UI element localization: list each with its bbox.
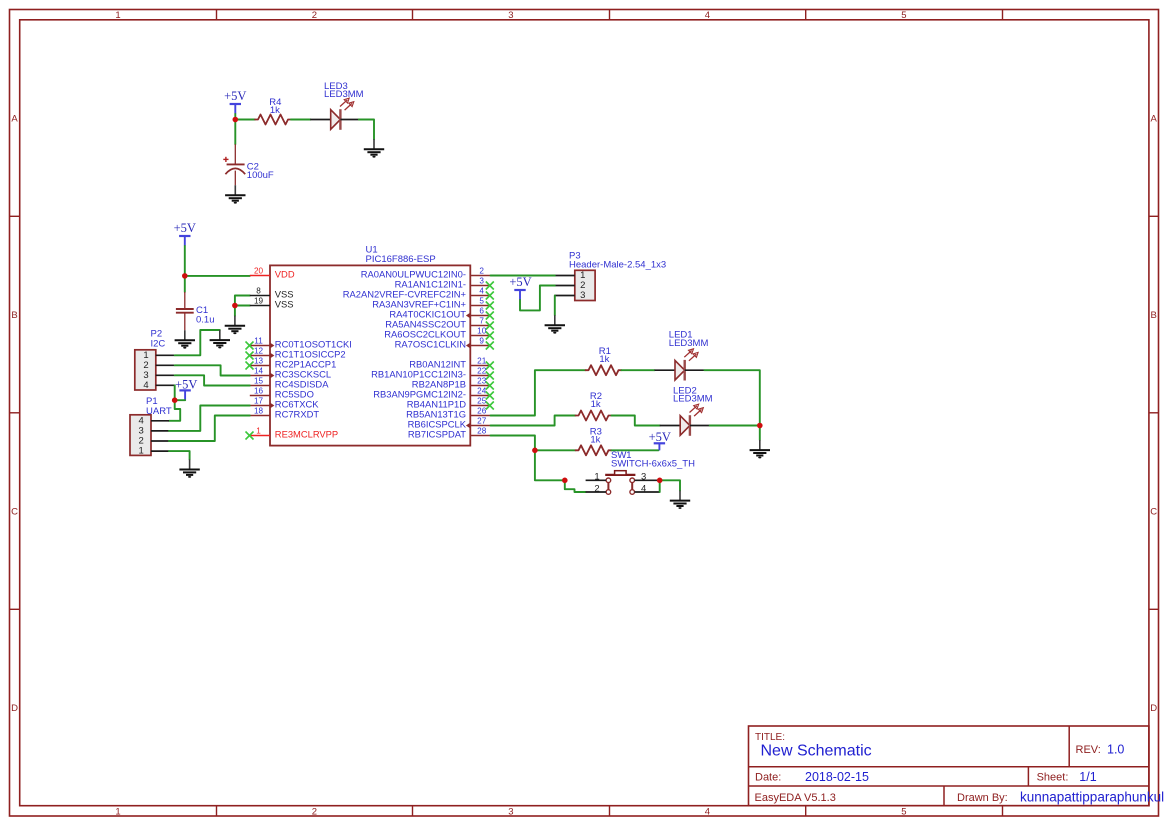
U1 pin 25 RB4AN11P1D: [407, 397, 494, 410]
junction SW1 pins 1-2 node: [562, 478, 568, 484]
ground P1 pin1: [179, 459, 199, 477]
svg-text:9: 9: [479, 337, 484, 346]
svg-text:3: 3: [580, 290, 585, 301]
svg-text:1: 1: [256, 427, 261, 436]
U1 pin 3 RA1AN1C12IN1-: [395, 277, 494, 290]
svg-text:TITLE:: TITLE:: [755, 732, 785, 743]
U1 pin 6 RA4T0CKIC1OUT: [389, 307, 493, 320]
U1 label: [366, 245, 378, 256]
P3 label: [569, 251, 581, 262]
svg-text:RA7OSC1CLKIN: RA7OSC1CLKIN: [395, 339, 466, 350]
svg-text:+5V: +5V: [509, 275, 531, 289]
svg-text:REV:: REV:: [1076, 744, 1101, 756]
LED2 label: [673, 386, 697, 397]
svg-text:4: 4: [641, 483, 646, 494]
svg-text:0.1u: 0.1u: [196, 314, 215, 325]
svg-text:1: 1: [115, 807, 120, 818]
svg-text:C: C: [11, 506, 18, 517]
wire SW1 pin4 up to node: [659, 480, 661, 492]
svg-text:20: 20: [254, 267, 264, 276]
wire node to R3: [535, 449, 576, 451]
U1 pin 7 RA5AN4SSC2OUT: [385, 317, 494, 330]
svg-text:28: 28: [477, 427, 487, 436]
svg-text:D: D: [1150, 703, 1157, 714]
wire cathode rail to ground: [759, 426, 761, 441]
svg-text:4: 4: [705, 10, 710, 21]
P3 value Header-Male-2.54_1x3: [569, 259, 666, 270]
ground LED rail: [750, 440, 770, 458]
P3 pin 3: [555, 290, 586, 301]
ground P2 pin1: [210, 330, 230, 348]
junction VDD node: [182, 273, 188, 279]
svg-text:Date:: Date:: [755, 772, 781, 784]
wire R3 to +5V: [612, 449, 659, 451]
wire P3 pin3 to ground: [554, 296, 556, 316]
wire U1 pin2 RA0 to P3 pin1: [491, 275, 555, 277]
svg-text:2: 2: [312, 807, 317, 818]
LED1 value LED3MM: [669, 338, 709, 349]
svg-text:RB7ICSPDAT: RB7ICSPDAT: [408, 429, 466, 440]
switch SW1 body: [605, 471, 635, 495]
svg-text:New Schematic: New Schematic: [761, 743, 872, 760]
wire U1 pin26 to R1: [491, 370, 586, 415]
svg-text:1k: 1k: [270, 105, 280, 116]
svg-text:25: 25: [477, 397, 487, 406]
junction LED cathode rail: [757, 423, 763, 429]
P2 pin 1: [143, 350, 174, 361]
IC U1 PIC16F886-ESP body: [270, 265, 470, 445]
svg-text:1: 1: [594, 472, 599, 483]
junction P2 pin4 / P1 pin4 +5V node: [172, 397, 178, 403]
svg-text:EasyEDA V5.1.3: EasyEDA V5.1.3: [755, 792, 836, 804]
SW1 pin 3: [635, 472, 660, 483]
svg-text:13: 13: [254, 357, 264, 366]
wire flag to node: [175, 399, 185, 401]
C2 label: [247, 161, 259, 172]
capacitor C2 (polarized): [223, 144, 245, 185]
U1 pin 28 RB7ICSPDAT: [408, 427, 491, 440]
LED2 value LED3MM: [673, 394, 713, 405]
wire P1 pin2 to U1 pin18 RX: [169, 416, 250, 442]
wire +5V flag down to VDD junction: [184, 246, 186, 276]
svg-text:3: 3: [508, 807, 513, 818]
P2 pin 2: [143, 360, 174, 371]
svg-text:1k: 1k: [591, 399, 601, 410]
wire LED2 to cathode rail: [710, 425, 760, 427]
U1 pin 8 VSS: [250, 287, 294, 300]
svg-text:1: 1: [139, 446, 144, 457]
P2 label: [151, 329, 163, 340]
U1 pin 4 RA2AN2VREF-CVREFC2IN+: [343, 287, 494, 300]
ground P3 pin3: [545, 315, 565, 333]
wire node to P1 pin4: [169, 400, 180, 421]
SW1 value SWITCH-6x6x5_TH: [611, 459, 695, 470]
U1 pin 13 RC2P1ACCP1: [246, 357, 337, 370]
svg-text:2: 2: [479, 267, 484, 276]
svg-text:1.0: 1.0: [1107, 743, 1124, 757]
wire P2 pin2 to U1 pin14 SCL: [175, 365, 250, 375]
svg-text:A: A: [1151, 114, 1158, 125]
svg-text:VSS: VSS: [275, 299, 294, 310]
svg-text:RE3MCLRVPP: RE3MCLRVPP: [275, 429, 338, 440]
wire P1 pin3 to U1 pin17 TX: [169, 406, 250, 431]
svg-text:+5V: +5V: [174, 221, 196, 235]
svg-text:+5V: +5V: [649, 430, 671, 444]
U1 pin 27 RB6ICSPCLK: [408, 417, 491, 430]
resistor R1: [586, 365, 622, 375]
net flag +5V (top, above C2): [224, 89, 246, 114]
U1 pin 12 RC1T1OSICCP2: [246, 347, 346, 360]
svg-text:4: 4: [143, 380, 148, 391]
P2 pin 4: [143, 380, 174, 391]
svg-text:1k: 1k: [590, 435, 600, 446]
svg-text:23: 23: [477, 377, 487, 386]
svg-text:19: 19: [254, 297, 264, 306]
wire node down to SW1: [535, 450, 565, 480]
svg-text:11: 11: [254, 337, 263, 346]
svg-text:18: 18: [254, 407, 264, 416]
resistor R2: [576, 411, 612, 421]
C1 value 0.1u: [196, 314, 215, 325]
wire junction to R4: [235, 119, 255, 121]
svg-text:+5V: +5V: [175, 378, 197, 392]
wire U1 pin28 to R3 node: [491, 436, 535, 451]
LED LED2: [660, 404, 710, 436]
svg-text:2018-02-15: 2018-02-15: [805, 770, 869, 784]
svg-text:5: 5: [901, 10, 906, 21]
junction +5V / R4 / C2: [233, 117, 239, 123]
svg-text:1k: 1k: [599, 354, 609, 365]
R2 value 1k: [591, 399, 601, 410]
svg-text:5: 5: [901, 807, 906, 818]
U1 pin 16 RC5SDO: [250, 387, 314, 400]
wire P2 pin3 to U1 pin15 SDA: [175, 375, 250, 385]
capacitor C1: [176, 292, 194, 330]
wire VDD junction down to C1: [184, 276, 186, 292]
U1 pin 9 RA7OSC1CLKIN: [395, 337, 494, 350]
svg-text:16: 16: [254, 387, 264, 396]
wire VDD junction to U1 pin 20: [185, 275, 250, 277]
svg-text:C: C: [1150, 506, 1157, 517]
R2 label: [590, 391, 602, 402]
R3 label: [590, 427, 602, 438]
junction SW1 pins 3-4 node: [657, 478, 663, 484]
ground VSS: [225, 316, 245, 334]
svg-text:UART: UART: [146, 406, 172, 417]
U1 pin 19 VSS: [250, 297, 294, 310]
U1 pin 22 RB1AN10P1CC12IN3-: [371, 367, 494, 380]
svg-text:3: 3: [479, 277, 484, 286]
U1 pin 24 RB3AN9PGMC12IN2-: [373, 387, 494, 400]
U1 pin 15 RC4SDISDA: [250, 377, 329, 390]
wire LED1 to cathode rail: [705, 370, 760, 425]
svg-text:D: D: [11, 703, 18, 714]
svg-text:21: 21: [477, 357, 487, 366]
C2 value 100uF: [247, 170, 274, 181]
wire +5V flag to junction: [234, 114, 236, 120]
svg-text:10: 10: [477, 327, 487, 336]
SW1 pin 1: [586, 472, 607, 483]
svg-text:+5V: +5V: [224, 89, 246, 103]
U1 pin 5 RA3AN3VREF+C1IN+: [372, 297, 494, 310]
R4 value 1k: [270, 105, 280, 116]
wire SW1 node to ground: [660, 480, 680, 490]
resistor R4: [255, 115, 291, 125]
wire P1 pin1 to ground: [169, 451, 190, 459]
svg-text:3: 3: [508, 10, 513, 21]
svg-text:26: 26: [477, 407, 487, 416]
svg-text:24: 24: [477, 387, 487, 396]
C1 label: [196, 305, 208, 316]
P1 value UART: [146, 406, 172, 417]
net flag +5V (above C1, VDD rail): [174, 221, 196, 246]
svg-text:1/1: 1/1: [1079, 770, 1096, 784]
svg-text:PIC16F886-ESP: PIC16F886-ESP: [366, 254, 436, 265]
wire P2 pin4 down to +5V node: [174, 385, 176, 400]
svg-text:14: 14: [254, 367, 264, 376]
wire LED3 cathode to ground: [359, 120, 374, 140]
wire VSS node to ground: [234, 306, 236, 316]
U1 pin 11 RC0T1OSOT1CKI: [246, 337, 352, 350]
ground below C1: [175, 330, 195, 348]
wire VSS pins 8-19 tie: [235, 296, 250, 306]
P1 pin 4: [139, 415, 169, 426]
R4 label: [269, 97, 281, 108]
net flag +5V (near P1): [175, 378, 197, 401]
P1 label: [146, 396, 158, 407]
U1 pin 10 RA6OSC2CLKOUT: [384, 327, 494, 340]
svg-text:B: B: [11, 310, 17, 321]
U1 pin 14 RC3SCKSCL: [250, 367, 331, 380]
P3 pin 1: [555, 270, 586, 281]
ground below C2: [225, 185, 245, 203]
U1 pin 20 VDD: [250, 267, 295, 280]
R3 value 1k: [590, 435, 600, 446]
R1 label: [599, 346, 611, 357]
R1 value 1k: [599, 354, 609, 365]
U1 pin 21 RB0AN12INT: [409, 357, 494, 370]
svg-text:I2C: I2C: [151, 339, 166, 350]
U1 pin 17 RC6TXCK: [250, 397, 320, 410]
svg-text:4: 4: [479, 287, 484, 296]
svg-text:17: 17: [254, 397, 264, 406]
svg-text:LED3MM: LED3MM: [669, 338, 709, 349]
wire node jog to SW1 pin2: [565, 480, 586, 492]
svg-text:RC7RXDT: RC7RXDT: [275, 409, 320, 420]
U1 pin 26 RB5AN13T1G: [406, 407, 490, 420]
svg-text:Header-Male-2.54_1x3: Header-Male-2.54_1x3: [569, 259, 666, 270]
P1 pin 3: [139, 426, 169, 437]
connector P1 body: [130, 415, 151, 456]
svg-text:5: 5: [479, 297, 484, 306]
LED LED3: [310, 98, 360, 130]
svg-text:LED3MM: LED3MM: [673, 394, 713, 405]
connector P3 body: [575, 270, 595, 300]
net flag +5V (near SW1): [649, 430, 671, 450]
wire R4 to LED3: [291, 119, 310, 121]
svg-text:4: 4: [705, 807, 710, 818]
net flag +5V (near P3): [509, 275, 531, 300]
svg-text:15: 15: [254, 377, 264, 386]
U1 pin 18 RC7RXDT: [250, 407, 320, 420]
SW1 pin 2: [586, 483, 607, 494]
svg-text:2: 2: [312, 10, 317, 21]
LED3 value LED3MM: [324, 89, 364, 100]
svg-text:B: B: [1151, 310, 1157, 321]
svg-text:8: 8: [256, 287, 261, 296]
LED LED1: [655, 349, 705, 381]
ground below LED3: [364, 139, 384, 157]
svg-text:Drawn By:: Drawn By:: [957, 792, 1008, 804]
svg-text:22: 22: [477, 367, 487, 376]
junction VSS node: [232, 303, 238, 309]
wire +5V to P3 pin2: [520, 286, 555, 311]
P3 pin 2: [555, 280, 586, 291]
wire P2 pin1 to ground: [175, 330, 220, 355]
svg-text:LED3MM: LED3MM: [324, 89, 364, 100]
svg-text:VDD: VDD: [275, 269, 295, 280]
svg-text:27: 27: [477, 417, 487, 426]
junction R3 / SW1 node: [532, 448, 538, 454]
wire R1 to LED1: [622, 369, 655, 371]
svg-text:12: 12: [254, 347, 264, 356]
svg-text:Sheet:: Sheet:: [1037, 772, 1069, 784]
SW1 pin 4: [635, 483, 660, 494]
P1 pin 2: [139, 436, 169, 447]
svg-text:A: A: [11, 114, 18, 125]
svg-text:6: 6: [479, 307, 484, 316]
svg-text:7: 7: [479, 317, 484, 326]
U1 value PIC16F886-ESP: [366, 254, 436, 265]
P2 value I2C: [151, 339, 166, 350]
svg-text:kunnapattipparaphunkul: kunnapattipparaphunkul: [1020, 790, 1164, 805]
wire R2 to LED2: [612, 416, 660, 426]
svg-text:1: 1: [115, 10, 120, 21]
P1 pin 1: [139, 446, 169, 457]
LED1 label: [669, 330, 693, 341]
svg-text:3: 3: [641, 472, 646, 483]
wire junction down to C2: [234, 120, 236, 145]
svg-text:100uF: 100uF: [247, 170, 274, 181]
svg-text:SWITCH-6x6x5_TH: SWITCH-6x6x5_TH: [611, 459, 695, 470]
P2 pin 3: [143, 370, 174, 381]
svg-text:2: 2: [594, 483, 599, 494]
resistor R3: [576, 445, 612, 455]
connector P2 body: [135, 350, 156, 390]
LED3 label: [324, 81, 348, 92]
U1 pin 23 RB2AN8P1B: [412, 377, 494, 390]
U1 pin 1 RE3MCLRVPP: [246, 427, 339, 440]
U1 pin 2 RA0AN0ULPWUC12IN0-: [361, 267, 491, 280]
ground SW1: [670, 491, 690, 509]
SW1 label: [611, 450, 632, 461]
wire U1 pin27 to R2: [491, 416, 576, 426]
